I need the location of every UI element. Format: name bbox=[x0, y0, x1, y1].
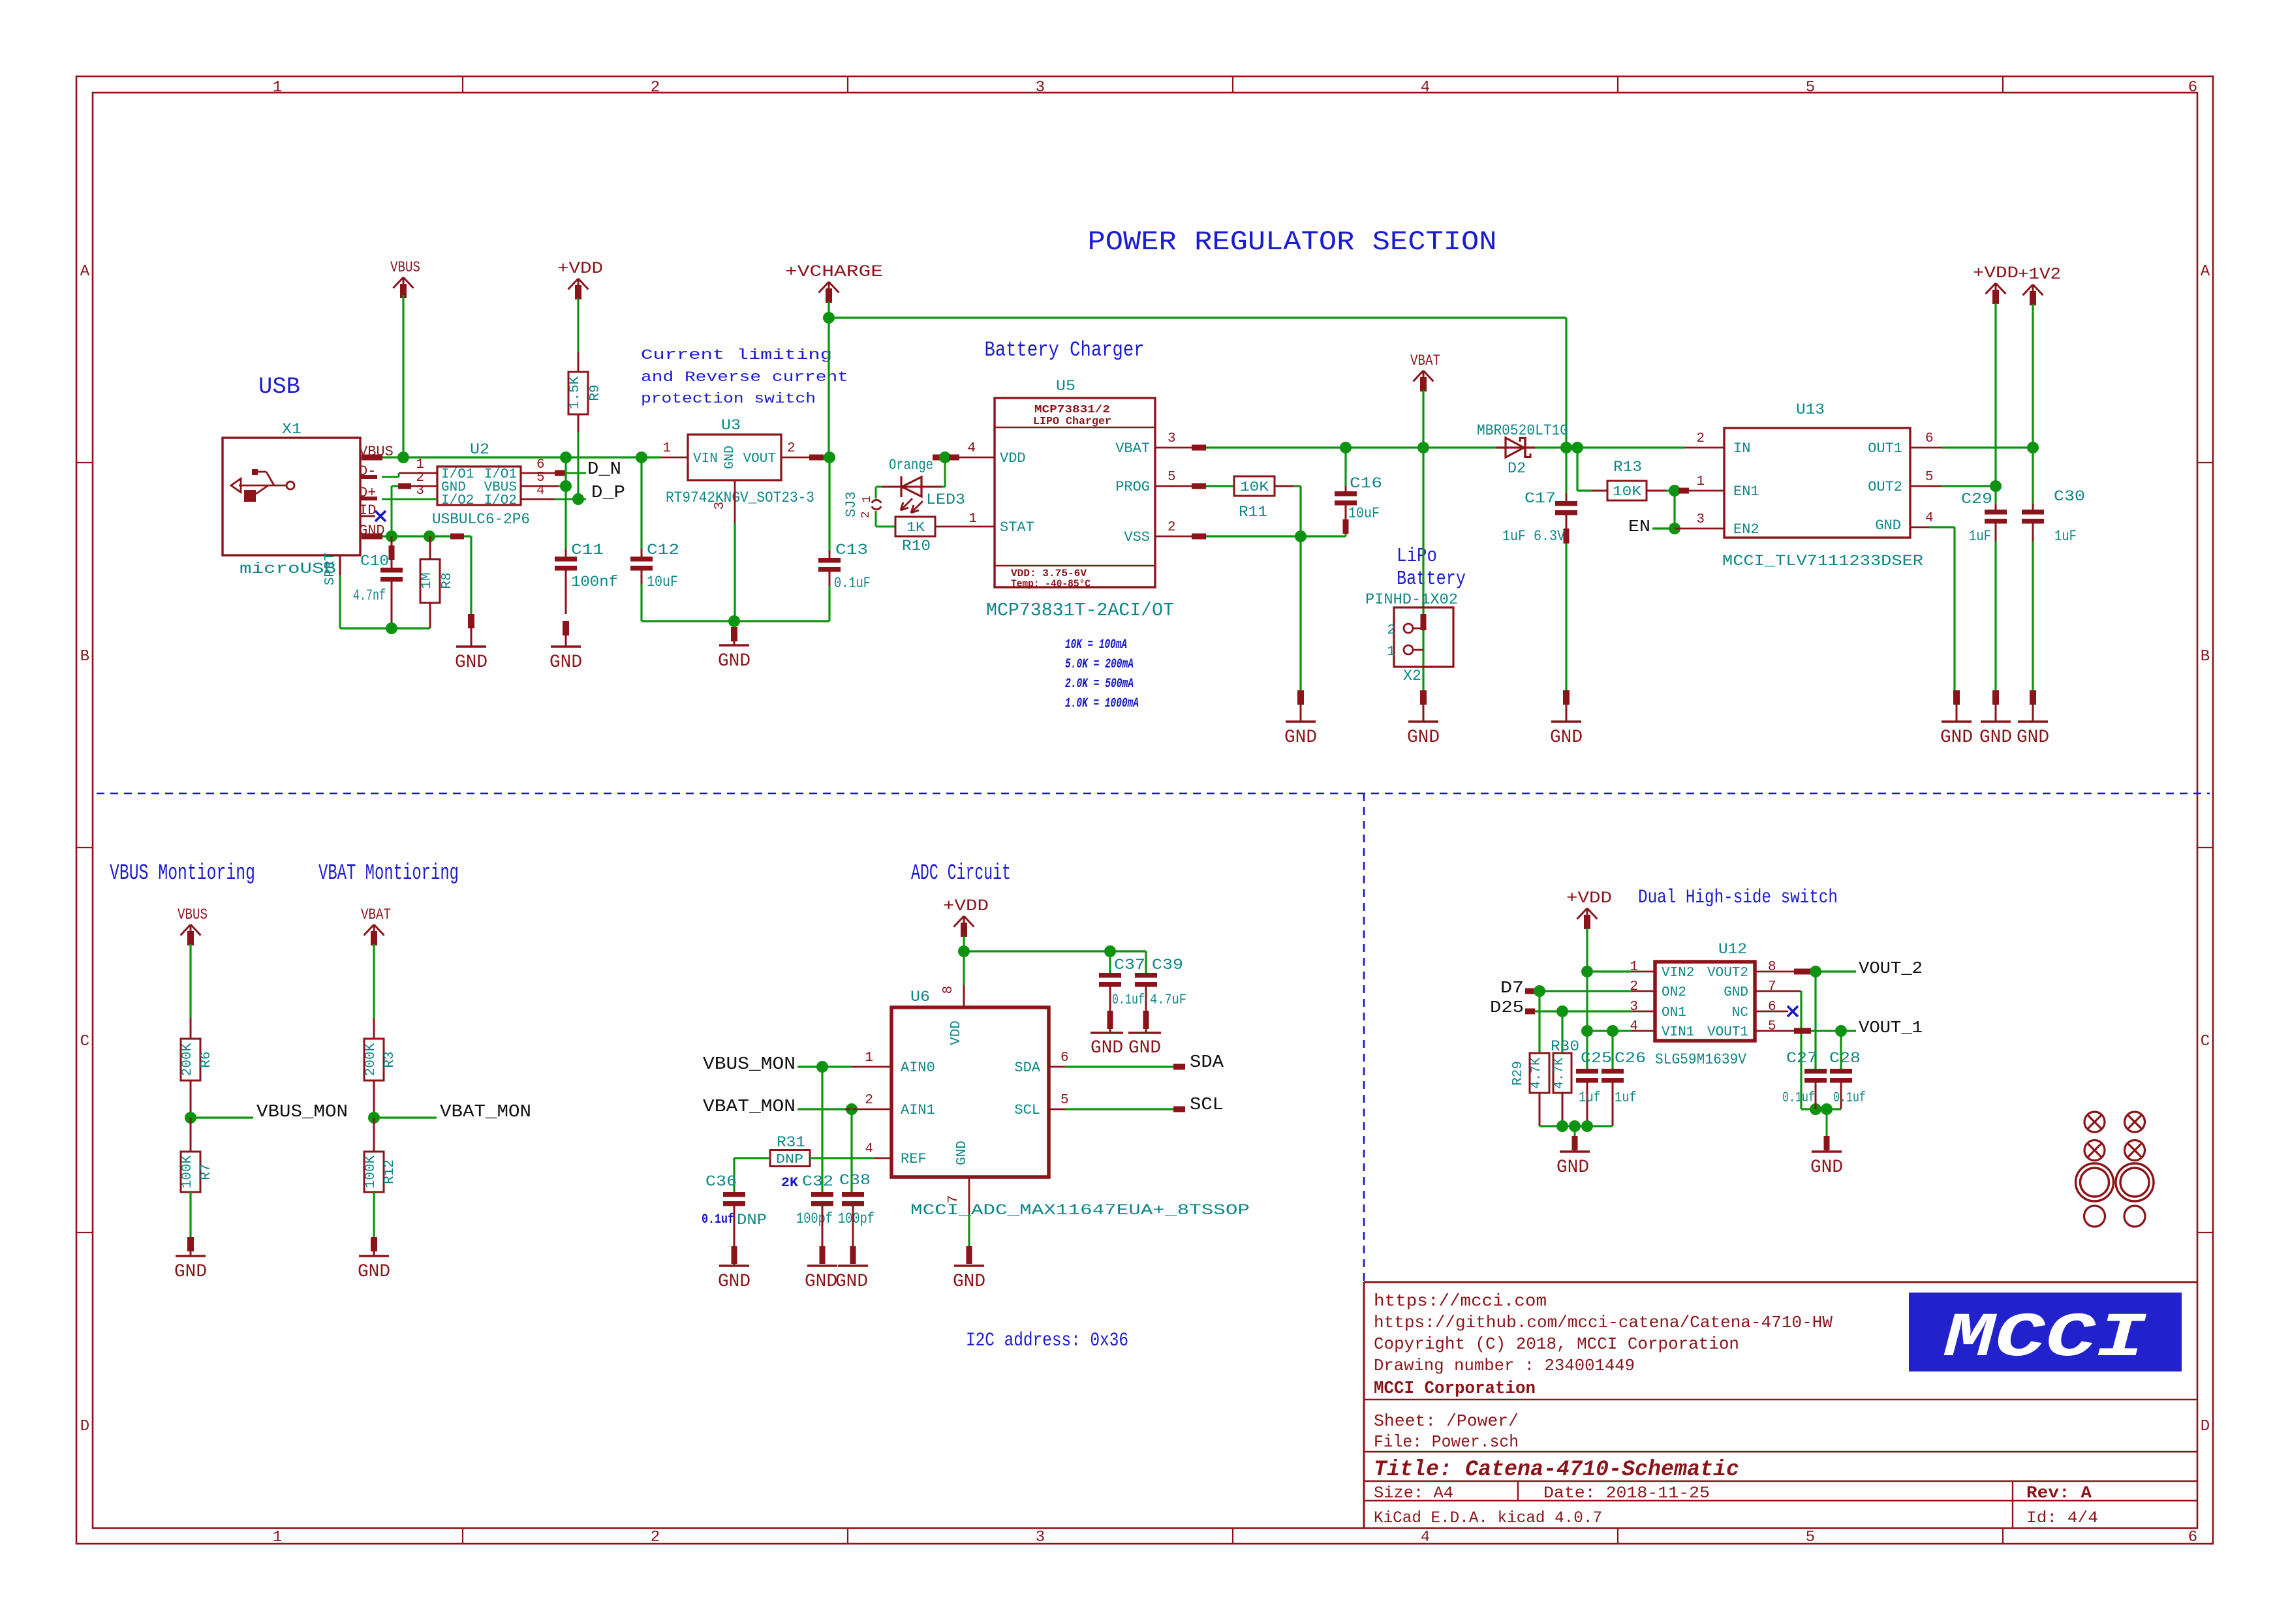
svg-text:0.1uf: 0.1uf bbox=[1782, 1090, 1815, 1106]
svg-text:+1V2: +1V2 bbox=[2018, 265, 2061, 284]
svg-text:MCP73831T-2ACI/OT: MCP73831T-2ACI/OT bbox=[986, 600, 1174, 621]
svg-text:4.7nf: 4.7nf bbox=[353, 587, 386, 604]
svg-text:R9: R9 bbox=[588, 384, 603, 401]
svg-text:100nf: 100nf bbox=[571, 574, 618, 590]
svg-text:1: 1 bbox=[662, 441, 671, 456]
svg-text:1K: 1K bbox=[906, 521, 925, 536]
svg-text:C28: C28 bbox=[1829, 1050, 1861, 1067]
svg-text:PROG: PROG bbox=[1115, 479, 1150, 495]
svg-text:10K: 10K bbox=[1613, 485, 1641, 500]
svg-text:IN: IN bbox=[1733, 440, 1750, 457]
svg-text:10uF: 10uF bbox=[647, 574, 678, 590]
svg-text:GND: GND bbox=[955, 1141, 970, 1165]
svg-text:Battery: Battery bbox=[1397, 568, 1466, 590]
svg-text:https://mcci.com: https://mcci.com bbox=[1374, 1291, 1547, 1311]
svg-text:+VDD: +VDD bbox=[1566, 889, 1612, 908]
svg-text:POWER REGULATOR SECTION: POWER REGULATOR SECTION bbox=[1088, 226, 1497, 258]
svg-text:1uF: 1uF bbox=[1969, 528, 1991, 545]
svg-text:Drawing number : 234001449: Drawing number : 234001449 bbox=[1374, 1356, 1635, 1375]
svg-text:VOUT_1: VOUT_1 bbox=[1859, 1018, 1923, 1037]
svg-text:A: A bbox=[80, 263, 90, 281]
svg-text:100K: 100K bbox=[180, 1155, 195, 1188]
svg-text:0.1uf: 0.1uf bbox=[1833, 1090, 1866, 1106]
svg-text:Current limiting: Current limiting bbox=[641, 347, 832, 363]
svg-text:GND: GND bbox=[722, 446, 737, 469]
svg-text:5: 5 bbox=[1168, 470, 1176, 485]
svg-text:GND: GND bbox=[718, 1272, 750, 1292]
svg-text:C37: C37 bbox=[1114, 957, 1145, 973]
svg-text:2.0K = 500mA: 2.0K = 500mA bbox=[1065, 677, 1134, 692]
svg-text:C30: C30 bbox=[2054, 488, 2085, 505]
svg-text:SCL: SCL bbox=[1014, 1102, 1040, 1118]
svg-text:KiCad E.D.A. kicad 4.0.7: KiCad E.D.A. kicad 4.0.7 bbox=[1374, 1509, 1602, 1527]
svg-text:MCCI Corporation: MCCI Corporation bbox=[1374, 1379, 1536, 1399]
svg-text:5: 5 bbox=[1768, 1019, 1776, 1034]
svg-text:1: 1 bbox=[273, 1529, 282, 1546]
svg-text:Sheet: /Power/: Sheet: /Power/ bbox=[1374, 1411, 1519, 1431]
svg-text:GND: GND bbox=[1810, 1157, 1843, 1178]
svg-text:VBAT: VBAT bbox=[361, 906, 391, 923]
svg-text:VOUT: VOUT bbox=[743, 452, 776, 467]
svg-text:I/O2: I/O2 bbox=[484, 493, 517, 508]
svg-text:+VDD: +VDD bbox=[1973, 264, 2019, 283]
svg-text:AIN1: AIN1 bbox=[901, 1102, 935, 1118]
svg-text:VSS: VSS bbox=[1124, 529, 1150, 545]
svg-text:5: 5 bbox=[1806, 1529, 1815, 1546]
svg-text:GND: GND bbox=[455, 652, 487, 673]
svg-text:VBAT Montioring: VBAT Montioring bbox=[318, 861, 459, 886]
svg-text:VBUS Montioring: VBUS Montioring bbox=[110, 861, 255, 886]
svg-text:EN2: EN2 bbox=[1733, 521, 1759, 538]
svg-text:MBR0520LT1G: MBR0520LT1G bbox=[1477, 422, 1568, 439]
svg-text:C29: C29 bbox=[1961, 491, 1992, 508]
svg-text:1: 1 bbox=[1387, 645, 1395, 660]
svg-text:6: 6 bbox=[1768, 1000, 1776, 1015]
svg-text:VDD: VDD bbox=[1000, 450, 1026, 467]
svg-text:1.5K: 1.5K bbox=[568, 376, 583, 409]
svg-text:ADC Circuit: ADC Circuit bbox=[911, 861, 1011, 886]
svg-text:R29: R29 bbox=[1511, 1061, 1526, 1086]
svg-text:D: D bbox=[80, 1418, 89, 1435]
svg-text:I/O2: I/O2 bbox=[441, 493, 474, 508]
svg-text:ON2: ON2 bbox=[1662, 985, 1686, 1000]
svg-text:DNP: DNP bbox=[737, 1212, 767, 1229]
svg-text:4: 4 bbox=[1421, 79, 1430, 97]
svg-text:D_N: D_N bbox=[587, 460, 621, 480]
svg-text:R12: R12 bbox=[382, 1159, 397, 1184]
svg-text:GND: GND bbox=[1091, 1038, 1123, 1058]
svg-text:0.1uF: 0.1uF bbox=[834, 575, 871, 592]
svg-text:100pf: 100pf bbox=[796, 1210, 833, 1227]
svg-text:5.0K = 200mA: 5.0K = 200mA bbox=[1065, 657, 1134, 672]
svg-text:10uF: 10uF bbox=[1348, 505, 1380, 522]
svg-text:R7: R7 bbox=[199, 1163, 214, 1180]
svg-text:3: 3 bbox=[1696, 512, 1705, 527]
svg-text:2: 2 bbox=[865, 1093, 873, 1108]
svg-text:EN: EN bbox=[1628, 517, 1650, 536]
svg-text:Orange: Orange bbox=[889, 457, 933, 474]
svg-text:200K: 200K bbox=[180, 1043, 195, 1076]
svg-text:Date: 2018-11-25: Date: 2018-11-25 bbox=[1543, 1484, 1710, 1503]
svg-text:3: 3 bbox=[713, 502, 728, 510]
svg-text:MCCI_ADC_MAX11647EUA+_8TSSOP: MCCI_ADC_MAX11647EUA+_8TSSOP bbox=[910, 1202, 1250, 1219]
svg-text:C: C bbox=[2201, 1033, 2210, 1050]
svg-text:Copyright (C) 2018, MCCI Corpo: Copyright (C) 2018, MCCI Corporation bbox=[1374, 1334, 1739, 1354]
svg-text:SCL: SCL bbox=[1190, 1095, 1224, 1115]
svg-text:8: 8 bbox=[941, 986, 956, 994]
svg-text:X2: X2 bbox=[1403, 667, 1421, 684]
svg-text:USBULC6-2P6: USBULC6-2P6 bbox=[432, 511, 530, 528]
svg-text:OUT2: OUT2 bbox=[1868, 479, 1902, 495]
svg-text:GND: GND bbox=[1979, 728, 2012, 748]
svg-text:NC: NC bbox=[1732, 1005, 1748, 1020]
svg-text:GND: GND bbox=[2017, 728, 2049, 748]
svg-text:RT9742KNGV_SOT23-3: RT9742KNGV_SOT23-3 bbox=[666, 489, 814, 506]
svg-text:1uf: 1uf bbox=[1579, 1090, 1601, 1106]
svg-text:VBUS_MON: VBUS_MON bbox=[703, 1055, 796, 1075]
svg-text:LED3: LED3 bbox=[926, 491, 965, 508]
svg-text:U12: U12 bbox=[1718, 941, 1747, 958]
svg-text:Dual High-side switch: Dual High-side switch bbox=[1638, 887, 1838, 909]
svg-text:10K: 10K bbox=[1240, 480, 1269, 495]
svg-text:R13: R13 bbox=[1613, 459, 1642, 476]
svg-text:LiPo: LiPo bbox=[1397, 545, 1437, 568]
svg-text:3: 3 bbox=[1036, 1529, 1045, 1546]
svg-text:Size: A4: Size: A4 bbox=[1374, 1484, 1453, 1503]
svg-text:OUT1: OUT1 bbox=[1868, 440, 1902, 457]
svg-text:SLG59M1639V: SLG59M1639V bbox=[1655, 1051, 1746, 1068]
svg-text:GND: GND bbox=[718, 651, 750, 671]
svg-text:C12: C12 bbox=[647, 542, 679, 559]
svg-text:AIN0: AIN0 bbox=[901, 1060, 935, 1076]
svg-text:C13: C13 bbox=[835, 542, 868, 559]
svg-text:4: 4 bbox=[967, 441, 976, 456]
svg-text:GND: GND bbox=[805, 1272, 837, 1292]
svg-text:R31: R31 bbox=[777, 1134, 805, 1151]
svg-text:1uF: 1uF bbox=[2054, 528, 2077, 545]
svg-text:microUSB: microUSB bbox=[240, 560, 336, 577]
svg-text:GND: GND bbox=[1940, 728, 1973, 748]
svg-text:SJ3: SJ3 bbox=[843, 491, 859, 517]
svg-text:C26: C26 bbox=[1615, 1050, 1646, 1067]
svg-text:VOUT_2: VOUT_2 bbox=[1859, 958, 1923, 978]
svg-text:U3: U3 bbox=[721, 417, 741, 434]
svg-text:VBUS: VBUS bbox=[390, 259, 420, 276]
svg-text:DNP: DNP bbox=[776, 1152, 803, 1167]
svg-text:Rev: A: Rev: A bbox=[2026, 1483, 2092, 1503]
svg-text:D2: D2 bbox=[1508, 460, 1526, 477]
svg-text:A: A bbox=[2201, 263, 2210, 281]
svg-text:6: 6 bbox=[1060, 1050, 1069, 1065]
svg-text:C38: C38 bbox=[839, 1172, 871, 1189]
svg-text:USB: USB bbox=[258, 374, 300, 400]
svg-text:ON1: ON1 bbox=[1662, 1005, 1686, 1020]
svg-text:2: 2 bbox=[651, 1529, 660, 1546]
svg-text:2: 2 bbox=[1696, 431, 1705, 446]
svg-text:4: 4 bbox=[865, 1142, 873, 1157]
svg-text:GND: GND bbox=[1875, 517, 1901, 534]
svg-text:MCCI: MCCI bbox=[1943, 1303, 2147, 1374]
svg-text:Battery Charger: Battery Charger bbox=[985, 338, 1145, 362]
svg-text:VBAT_MON: VBAT_MON bbox=[703, 1097, 796, 1117]
svg-text:C27: C27 bbox=[1786, 1050, 1818, 1067]
svg-text:and Reverse current: and Reverse current bbox=[641, 369, 848, 386]
svg-text:Id: 4/4: Id: 4/4 bbox=[2026, 1509, 2098, 1527]
svg-text:R10: R10 bbox=[902, 538, 931, 555]
svg-text:2: 2 bbox=[651, 79, 660, 97]
svg-text:1: 1 bbox=[865, 1050, 873, 1065]
svg-text:X1: X1 bbox=[282, 421, 302, 438]
svg-text:VBUS_MON: VBUS_MON bbox=[256, 1103, 348, 1122]
svg-text:C36: C36 bbox=[705, 1173, 737, 1190]
svg-text:C39: C39 bbox=[1152, 957, 1183, 973]
svg-text:8: 8 bbox=[1768, 960, 1776, 975]
svg-text:GND: GND bbox=[1407, 728, 1440, 748]
svg-text:4.7K: 4.7K bbox=[1552, 1058, 1567, 1089]
svg-text:MCP73831/2: MCP73831/2 bbox=[1034, 404, 1110, 416]
svg-text:R8: R8 bbox=[440, 572, 455, 589]
svg-text:5: 5 bbox=[1806, 79, 1815, 97]
svg-text:Temp: -40-85°C: Temp: -40-85°C bbox=[1011, 578, 1091, 590]
svg-text:+VCHARGE: +VCHARGE bbox=[785, 262, 883, 281]
svg-text:I2C address: 0x36: I2C address: 0x36 bbox=[966, 1330, 1128, 1352]
svg-text:5: 5 bbox=[1925, 470, 1934, 485]
svg-text:GND: GND bbox=[1556, 1157, 1589, 1178]
svg-text:REF: REF bbox=[901, 1151, 927, 1167]
svg-text:2: 2 bbox=[859, 512, 873, 519]
svg-text:10K = 100mA: 10K = 100mA bbox=[1065, 637, 1127, 652]
svg-text:+VDD: +VDD bbox=[557, 259, 603, 278]
svg-text:https://github.com/mcci-catena: https://github.com/mcci-catena/Catena-47… bbox=[1374, 1313, 1833, 1332]
svg-text:2: 2 bbox=[1387, 623, 1395, 638]
svg-text:C32: C32 bbox=[802, 1173, 833, 1190]
svg-text:VBAT: VBAT bbox=[1115, 440, 1150, 457]
svg-text:100K: 100K bbox=[364, 1155, 379, 1188]
svg-text:4.7uF: 4.7uF bbox=[1150, 992, 1186, 1008]
svg-text:GND: GND bbox=[1550, 728, 1583, 748]
svg-text:SDA: SDA bbox=[1190, 1053, 1224, 1073]
svg-text:6: 6 bbox=[1925, 431, 1934, 446]
svg-text:U2: U2 bbox=[470, 441, 489, 458]
svg-text:C25: C25 bbox=[1581, 1050, 1612, 1067]
svg-text:R3: R3 bbox=[382, 1051, 397, 1067]
svg-text:VOUT2: VOUT2 bbox=[1707, 966, 1748, 981]
svg-text:B: B bbox=[80, 648, 89, 666]
svg-text:C: C bbox=[80, 1033, 89, 1050]
svg-text:U5: U5 bbox=[1056, 378, 1075, 395]
svg-text:D_P: D_P bbox=[591, 483, 625, 503]
svg-text:2: 2 bbox=[1168, 520, 1176, 535]
svg-text:GND: GND bbox=[174, 1262, 207, 1282]
svg-text:1.0K = 1000mA: 1.0K = 1000mA bbox=[1065, 696, 1139, 711]
svg-text:2: 2 bbox=[787, 441, 796, 456]
svg-text:Title: Catena-4710-Schematic: Title: Catena-4710-Schematic bbox=[1374, 1458, 1739, 1482]
svg-text:GND: GND bbox=[1724, 985, 1748, 1000]
svg-text:1: 1 bbox=[273, 79, 282, 97]
svg-text:GND: GND bbox=[953, 1272, 985, 1292]
svg-text:D25: D25 bbox=[1490, 998, 1524, 1017]
svg-text:GND: GND bbox=[835, 1272, 868, 1292]
svg-text:VDD: VDD bbox=[949, 1020, 964, 1045]
svg-text:C10: C10 bbox=[360, 553, 389, 570]
svg-text:GND: GND bbox=[1284, 728, 1317, 748]
svg-text:4.7K: 4.7K bbox=[1529, 1058, 1544, 1089]
svg-text:EN1: EN1 bbox=[1733, 483, 1759, 500]
svg-text:R11: R11 bbox=[1239, 504, 1267, 521]
svg-text:VBAT: VBAT bbox=[1410, 352, 1440, 369]
svg-text:1uf: 1uf bbox=[1615, 1090, 1637, 1106]
svg-text:MCCI_TLV7111233DSER: MCCI_TLV7111233DSER bbox=[1722, 553, 1923, 570]
svg-text:B: B bbox=[2201, 648, 2210, 666]
svg-text:1: 1 bbox=[968, 512, 977, 527]
svg-text:4: 4 bbox=[1421, 1529, 1430, 1546]
svg-text:C11: C11 bbox=[571, 542, 604, 559]
svg-text:GND: GND bbox=[1128, 1038, 1161, 1058]
svg-text:2K: 2K bbox=[781, 1176, 798, 1191]
svg-text:VIN1: VIN1 bbox=[1662, 1025, 1694, 1040]
svg-text:R30: R30 bbox=[1551, 1038, 1579, 1055]
svg-text:U13: U13 bbox=[1796, 401, 1825, 418]
svg-text:7: 7 bbox=[1768, 979, 1776, 994]
svg-text:VIN2: VIN2 bbox=[1662, 966, 1694, 981]
svg-text:VBAT_MON: VBAT_MON bbox=[440, 1103, 531, 1122]
svg-text:C17: C17 bbox=[1524, 490, 1556, 507]
svg-text:File: Power.sch: File: Power.sch bbox=[1374, 1432, 1519, 1452]
svg-text:D: D bbox=[2201, 1418, 2210, 1435]
svg-text:3: 3 bbox=[1168, 431, 1176, 446]
svg-text:1: 1 bbox=[861, 496, 874, 503]
svg-text:SDA: SDA bbox=[1014, 1060, 1040, 1076]
svg-text:PINHD-1X02: PINHD-1X02 bbox=[1365, 591, 1458, 608]
svg-text:4: 4 bbox=[1925, 511, 1934, 526]
svg-text:LIPO Charger: LIPO Charger bbox=[1033, 416, 1111, 428]
svg-text:GND: GND bbox=[549, 652, 582, 673]
svg-text:VOUT1: VOUT1 bbox=[1707, 1025, 1748, 1040]
svg-text:STAT: STAT bbox=[1000, 519, 1034, 536]
svg-text:3: 3 bbox=[1036, 79, 1045, 97]
svg-text:SPRT: SPRT bbox=[323, 553, 338, 585]
svg-text:100pf: 100pf bbox=[838, 1210, 874, 1227]
svg-text:0.1uf: 0.1uf bbox=[702, 1212, 734, 1227]
svg-text:+VDD: +VDD bbox=[943, 896, 989, 915]
svg-text:C16: C16 bbox=[1350, 475, 1382, 492]
svg-text:VIN: VIN bbox=[693, 452, 718, 467]
svg-text:1M: 1M bbox=[420, 572, 435, 589]
svg-text:R6: R6 bbox=[199, 1051, 214, 1067]
svg-text:1: 1 bbox=[1696, 474, 1705, 489]
svg-text:protection switch: protection switch bbox=[641, 391, 816, 407]
svg-text:GND: GND bbox=[358, 1262, 390, 1282]
svg-text:1uF 6.3V: 1uF 6.3V bbox=[1502, 528, 1565, 545]
svg-text:VBUS: VBUS bbox=[178, 906, 208, 923]
svg-text:D7: D7 bbox=[1500, 978, 1524, 998]
svg-text:6: 6 bbox=[2188, 1529, 2197, 1546]
svg-text:6: 6 bbox=[2188, 79, 2197, 97]
svg-text:0.1uf: 0.1uf bbox=[1112, 992, 1145, 1008]
svg-text:5: 5 bbox=[1060, 1093, 1069, 1108]
svg-text:200K: 200K bbox=[364, 1043, 379, 1076]
svg-text:U6: U6 bbox=[910, 988, 930, 1005]
